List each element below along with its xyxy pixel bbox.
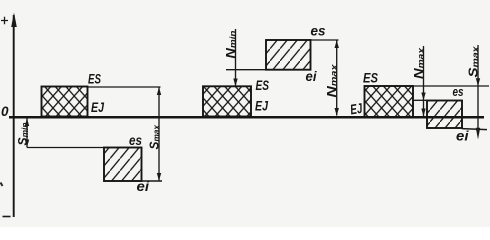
svg-text:Smax: Smax: [147, 124, 162, 149]
svg-text:Smax: Smax: [465, 45, 480, 77]
svg-text:Nmin: Nmin: [223, 30, 238, 59]
svg-text:Nmax: Nmax: [411, 47, 426, 79]
svg-text:ES: ES: [256, 77, 270, 93]
svg-text:0: 0: [1, 104, 9, 119]
svg-text:ei: ei: [137, 178, 151, 194]
svg-text:EJ: EJ: [91, 99, 105, 115]
svg-text:ES: ES: [363, 70, 379, 86]
svg-text:es: es: [311, 23, 326, 39]
svg-text:EJ: EJ: [255, 98, 269, 114]
svg-text:ES: ES: [88, 71, 101, 87]
svg-text:es: es: [129, 132, 142, 148]
svg-text:Nmax: Nmax: [324, 63, 339, 97]
svg-text:Smin: Smin: [15, 122, 30, 145]
svg-text:EJ: EJ: [349, 100, 364, 118]
svg-text:ei: ei: [456, 128, 470, 144]
svg-text:es: es: [453, 84, 464, 99]
svg-text:ei: ei: [306, 68, 318, 84]
